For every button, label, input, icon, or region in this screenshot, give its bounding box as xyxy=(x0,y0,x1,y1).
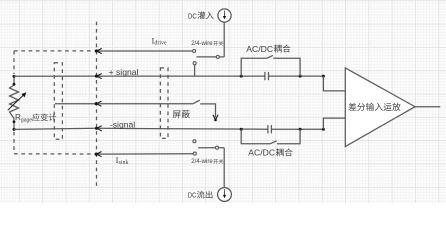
wire shield xyxy=(55,103,193,105)
svg-text:DC: DC xyxy=(188,191,197,200)
svg-text:2/4-wire: 2/4-wire xyxy=(191,40,213,47)
current source DC outflow circle xyxy=(218,188,232,202)
sensor enclosure dashed box xyxy=(14,50,97,52)
wire from DC source to switch xyxy=(223,22,225,57)
wire to op-amp input bottom xyxy=(322,128,325,131)
svg-text:DC: DC xyxy=(188,11,197,20)
current source DC inject circle xyxy=(218,9,231,22)
shield switch xyxy=(193,100,200,104)
wire -signal xyxy=(14,128,268,129)
2/4-wire switch bottom tap circle xyxy=(193,140,196,143)
label shield xyxy=(173,110,181,118)
wire to op-amp input top xyxy=(322,75,325,78)
2/4-wire switch top arm and terminal B xyxy=(196,56,216,58)
bypass switch bottom xyxy=(240,128,243,131)
label differential input op-amp xyxy=(348,103,356,111)
svg-text:AC/DC: AC/DC xyxy=(248,148,275,158)
2/4-wire switch bottom terminal A xyxy=(193,152,196,155)
resistor R_gage (strain gauge) xyxy=(13,76,15,85)
wire +signal xyxy=(14,75,265,77)
resistor variable arrow xyxy=(8,95,24,110)
wire switch to DC sink xyxy=(223,148,225,188)
connector boundary dashed line xyxy=(96,22,98,186)
capacitor AC coupling top xyxy=(264,72,266,80)
op-amp output wire xyxy=(415,106,440,108)
svg-text:-signal: -signal xyxy=(110,119,135,129)
op-amp differential input amplifier xyxy=(345,68,415,147)
2/4-wire switch bottom arm and terminal B xyxy=(198,147,215,149)
capacitor AC coupling bottom xyxy=(267,125,269,133)
2/4-wire switch top tap to +signal xyxy=(193,62,196,65)
svg-text:AC/DC: AC/DC xyxy=(246,44,273,54)
svg-text:2/4-wire: 2/4-wire xyxy=(191,158,213,165)
svg-text:+ signal: + signal xyxy=(109,67,139,77)
2/4-wire switch top terminal A xyxy=(193,50,196,53)
bypass switch top xyxy=(240,75,243,78)
cable shield dashed box left xyxy=(54,63,62,140)
cable shield dashed box right xyxy=(160,68,168,138)
wire I_drive xyxy=(97,50,193,52)
wire I_sink xyxy=(96,153,193,155)
